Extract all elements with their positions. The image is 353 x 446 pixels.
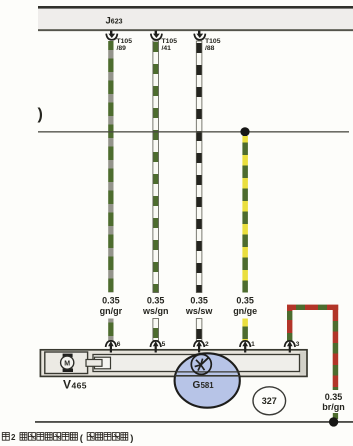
svg-text:581: 581 [201,381,215,390]
label 0.35 gn/ge [233,296,257,316]
connector terminal T105/41 [151,31,177,52]
junction dot [240,127,249,136]
svg-text:3: 3 [296,341,300,348]
svg-text:0.35: 0.35 [102,296,120,306]
svg-text:0.35: 0.35 [236,296,254,306]
svg-text:465: 465 [72,381,87,391]
wire br/gn left vertical [287,310,292,341]
label G581 [193,380,215,391]
svg-text:): ) [38,106,43,123]
label 0.35 ws/sw [185,296,214,316]
sensor symbol [191,354,211,374]
svg-text:1: 1 [251,341,255,348]
pin 6 arrow [106,341,121,353]
pin 2 arrow [194,341,209,353]
label 0.35 br/gn [322,392,345,412]
svg-text:0.35: 0.35 [325,392,343,402]
svg-text:5: 5 [162,341,166,348]
wire br/gn horizontal [287,305,338,310]
wire gn/gr upper segment [108,41,113,293]
caption 图2 增压器调节电机（位置传感器） [2,433,9,441]
wire br/gn right vertical [333,310,339,390]
svg-text:gn/gr: gn/gr [100,306,123,316]
wire gn/ge lower segment [242,319,248,341]
pin 5 arrow [150,341,165,353]
wire gn/gr lower segment [108,319,113,341]
svg-text:/41: /41 [162,45,172,52]
label 0.35 ws/gn [142,296,169,316]
svg-text:/88: /88 [205,45,215,52]
bottom frame line [35,421,353,423]
label 0.35 gn/gr [100,296,123,316]
svg-text:2: 2 [205,341,209,348]
svg-text:327: 327 [262,396,277,406]
connector terminal T105/88 [194,31,221,52]
svg-text:gn/ge: gn/ge [233,306,257,316]
svg-text:M: M [64,360,70,367]
svg-text:0.35: 0.35 [147,296,165,306]
svg-text:2: 2 [11,433,16,442]
svg-text:ws/gn: ws/gn [142,306,169,316]
svg-text:(: ( [80,433,84,444]
wire ws/gn lower segment [153,319,159,341]
label V465 [63,378,87,392]
node line [38,131,349,132]
svg-text:0.35: 0.35 [190,296,208,306]
svg-text:): ) [130,433,133,444]
ground junction dot [329,417,338,426]
svg-text:V: V [63,378,71,392]
svg-text:6: 6 [117,341,121,348]
wire ws/sw upper segment [196,41,202,293]
pin 1 arrow [240,341,255,353]
svg-text:br/gn: br/gn [322,402,345,412]
connector terminal T105/89 [106,31,132,52]
svg-text:/89: /89 [117,45,127,52]
track number 327 [253,387,286,415]
svg-text:G: G [193,380,201,391]
wire gn/ge upper segment [242,136,248,293]
sensor G581 circle [175,353,240,407]
motor symbol V465 [61,354,74,372]
wire ws/gn upper segment [153,41,159,293]
wire br/gn stub to ground [333,413,338,419]
svg-text:ws/sw: ws/sw [185,306,214,316]
actuator V465/G581 component body [40,350,307,377]
svg-text:623: 623 [111,19,123,26]
wire ws/sw lower segment [196,319,202,341]
ECU bar J623 [38,6,353,32]
pin 3 arrow [285,341,300,353]
